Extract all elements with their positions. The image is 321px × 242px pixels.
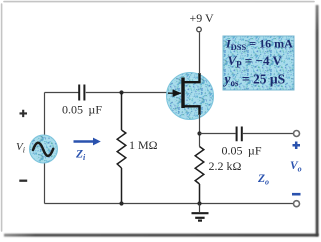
minus sign input: [19, 180, 27, 182]
svg-text:+9 V: +9 V: [190, 11, 215, 25]
capacitor C1 0.05uF plates: [79, 85, 84, 101]
output terminal top: [294, 131, 300, 137]
svg-text:0.05 µF: 0.05 µF: [222, 144, 262, 158]
JFET drain stub: [184, 73, 200, 82]
svg-text:0.05 µF: 0.05 µF: [62, 103, 102, 117]
svg-text:2.2 kΩ: 2.2 kΩ: [209, 159, 242, 173]
sine wave inside source Vs: [33, 143, 53, 156]
frame border bottom (shadow): [4, 234, 319, 237]
junction node: source / C2: [197, 131, 201, 135]
JFET source stub: [184, 106, 200, 115]
plus sign output (blue): [293, 142, 301, 150]
frame border top: [4, 1, 314, 3]
frame border left: [1, 4, 3, 231]
JFET channel bar: [181, 78, 184, 109]
wire: top horizontal gate rail left of capacitor: [45, 92, 79, 94]
svg-text:VP = −4 V: VP = −4 V: [228, 53, 283, 70]
junction node: R1 bottom on ground rail: [119, 201, 123, 205]
wire: bottom ground rail: [45, 203, 294, 205]
svg-text:1 MΩ: 1 MΩ: [129, 138, 158, 152]
output terminal bottom: [294, 201, 300, 207]
Zi arrow (blue): [74, 140, 95, 142]
wire: source node to C2: [200, 133, 236, 135]
resistor R2 2.2 kohm: [195, 147, 204, 204]
junction node: R2 bottom / ground: [197, 201, 201, 205]
source Vs circle (speckled): [30, 135, 58, 163]
wire: drain to +9V terminal: [199, 33, 201, 75]
wire: C2 to output terminal: [243, 133, 293, 135]
capacitor C2 0.05uF plates: [237, 127, 242, 142]
transistor Q1 JFET body (speckled circle): [167, 73, 214, 120]
JFET gate arrow: [168, 92, 181, 94]
junction node: gate rail / R1 top: [119, 90, 123, 94]
wire: source down to R2: [199, 114, 201, 147]
wire: left vertical rail: [44, 93, 46, 204]
resistor R1 1 Mohm: [117, 93, 126, 204]
wire: top horizontal gate rail right of capacitor: [86, 92, 176, 94]
plus sign input: [20, 110, 28, 117]
minus sign output (blue): [292, 193, 301, 196]
frame border right (shadow): [316, 5, 319, 236]
parameter box (speckled): [223, 36, 294, 90]
ground symbol: [199, 204, 201, 213]
+9V supply terminal: [197, 27, 202, 32]
